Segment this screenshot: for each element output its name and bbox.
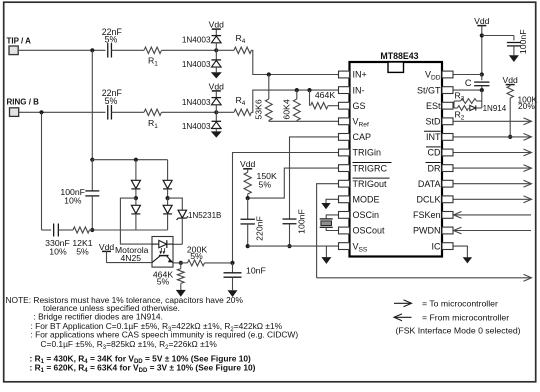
svg-text:464K: 464K bbox=[315, 90, 335, 100]
svg-text:1N914: 1N914 bbox=[483, 104, 507, 113]
svg-text:ESt: ESt bbox=[426, 101, 441, 111]
svg-text:220nF: 220nF bbox=[254, 216, 264, 241]
svg-text:R1: R1 bbox=[148, 56, 158, 68]
svg-text:100nF: 100nF bbox=[297, 209, 307, 234]
svg-text:DATA: DATA bbox=[418, 179, 441, 189]
svg-text:Vdd: Vdd bbox=[209, 20, 225, 30]
svg-text:10nF: 10nF bbox=[246, 265, 266, 275]
svg-text:Vdd: Vdd bbox=[209, 81, 225, 91]
svg-text:= From microcontroller: = From microcontroller bbox=[422, 312, 509, 322]
svg-text:5%: 5% bbox=[190, 251, 203, 261]
svg-text:5%: 5% bbox=[76, 247, 89, 257]
svg-text:TRIGout: TRIGout bbox=[353, 179, 388, 189]
svg-text:Vdd: Vdd bbox=[503, 75, 519, 85]
svg-text:R4: R4 bbox=[236, 95, 246, 107]
svg-text:10%: 10% bbox=[64, 195, 82, 205]
svg-text:IN-: IN- bbox=[353, 85, 365, 95]
svg-text:100nF: 100nF bbox=[518, 29, 528, 54]
svg-text:IC: IC bbox=[432, 241, 442, 251]
svg-text:1N4003: 1N4003 bbox=[182, 122, 211, 131]
svg-text:1N5231B: 1N5231B bbox=[188, 211, 221, 220]
svg-text:TIP / A: TIP / A bbox=[7, 37, 32, 46]
svg-text:1N4003: 1N4003 bbox=[182, 36, 211, 45]
svg-text:CAP: CAP bbox=[353, 132, 372, 142]
svg-text:FSKen: FSKen bbox=[413, 210, 441, 220]
svg-text:StD: StD bbox=[425, 117, 441, 127]
svg-text:PWDN: PWDN bbox=[413, 226, 441, 236]
svg-text:5%: 5% bbox=[105, 96, 118, 106]
svg-text:Vdd: Vdd bbox=[240, 159, 256, 169]
svg-text:GS: GS bbox=[353, 101, 366, 111]
svg-text:4N25: 4N25 bbox=[121, 253, 142, 263]
svg-text:5%: 5% bbox=[157, 276, 170, 286]
svg-text:R4: R4 bbox=[236, 33, 246, 45]
svg-text:C=0.1µF ±5%, R3=825kΩ ±1%, R2=: C=0.1µF ±5%, R3=825kΩ ±1%, R2=226kΩ ±1% bbox=[41, 339, 218, 351]
svg-text:1N4003: 1N4003 bbox=[182, 60, 211, 69]
svg-text:DR: DR bbox=[428, 163, 441, 173]
svg-text:OSCout: OSCout bbox=[353, 226, 386, 236]
svg-text:R1: R1 bbox=[148, 118, 158, 130]
svg-text:= To microcontroller: = To microcontroller bbox=[422, 298, 498, 308]
svg-text:IN+: IN+ bbox=[353, 70, 367, 80]
svg-text:INT: INT bbox=[426, 132, 441, 142]
svg-text:5%: 5% bbox=[259, 179, 272, 189]
svg-text:CD: CD bbox=[428, 148, 441, 158]
svg-text:Vdd: Vdd bbox=[474, 16, 490, 26]
svg-text:OSCin: OSCin bbox=[353, 210, 380, 220]
svg-text:C: C bbox=[465, 78, 472, 88]
svg-text:1N4003: 1N4003 bbox=[182, 98, 211, 107]
svg-text:MT88E43: MT88E43 bbox=[380, 51, 418, 61]
svg-text:10%: 10% bbox=[49, 247, 67, 257]
svg-text:TRIGRC: TRIGRC bbox=[353, 163, 388, 173]
svg-text:DCLK: DCLK bbox=[416, 195, 440, 205]
svg-text:(FSK Interface Mode 0 selected: (FSK Interface Mode 0 selected) bbox=[396, 326, 521, 336]
svg-text:TRIGin: TRIGin bbox=[353, 148, 382, 158]
svg-text:20%: 20% bbox=[518, 101, 535, 111]
svg-text:: Bridge rectifier diodes are: : Bridge rectifier diodes are 1N914. bbox=[34, 311, 163, 321]
svg-text:53K6: 53K6 bbox=[253, 99, 263, 119]
svg-text:Vdd: Vdd bbox=[99, 242, 115, 252]
svg-text:R2: R2 bbox=[455, 110, 465, 122]
svg-text:60K4: 60K4 bbox=[281, 99, 291, 119]
svg-text:5%: 5% bbox=[105, 34, 118, 44]
svg-text:MODE: MODE bbox=[353, 195, 380, 205]
svg-text:St/GT: St/GT bbox=[417, 85, 441, 95]
svg-text:RING / B: RING / B bbox=[7, 98, 40, 107]
